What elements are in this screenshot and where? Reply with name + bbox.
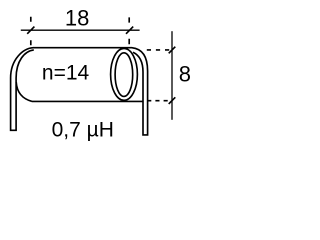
svg-text:18: 18 — [65, 6, 89, 31]
coil body bottom edge — [32, 100, 143, 102]
dimension line 8 (vertical) — [171, 31, 173, 120]
coil body top edge + right lead (wire outline) — [33, 48, 148, 135]
dimension tick left — [27, 27, 34, 34]
dimension tick right — [126, 27, 133, 34]
dimension tick top — [169, 47, 176, 54]
dashed projection line bottom — [147, 100, 170, 102]
svg-text:8: 8 — [179, 61, 191, 86]
dimension tick bottom — [169, 97, 176, 104]
svg-text:n=14: n=14 — [42, 62, 90, 85]
svg-text:0,7 µH: 0,7 µH — [52, 119, 114, 142]
dashed projection line top — [147, 49, 171, 51]
coil body lower-left silhouette arc — [16, 82, 32, 101]
right end cap inner ellipse — [115, 53, 133, 97]
dimension line 18 — [21, 29, 140, 31]
extension line right (dashed) — [128, 17, 130, 44]
coil body left end cap + left lead (wire outline) — [11, 48, 34, 131]
right end cap outer ellipse — [111, 48, 138, 100]
extension line left (dashed) — [30, 17, 32, 45]
